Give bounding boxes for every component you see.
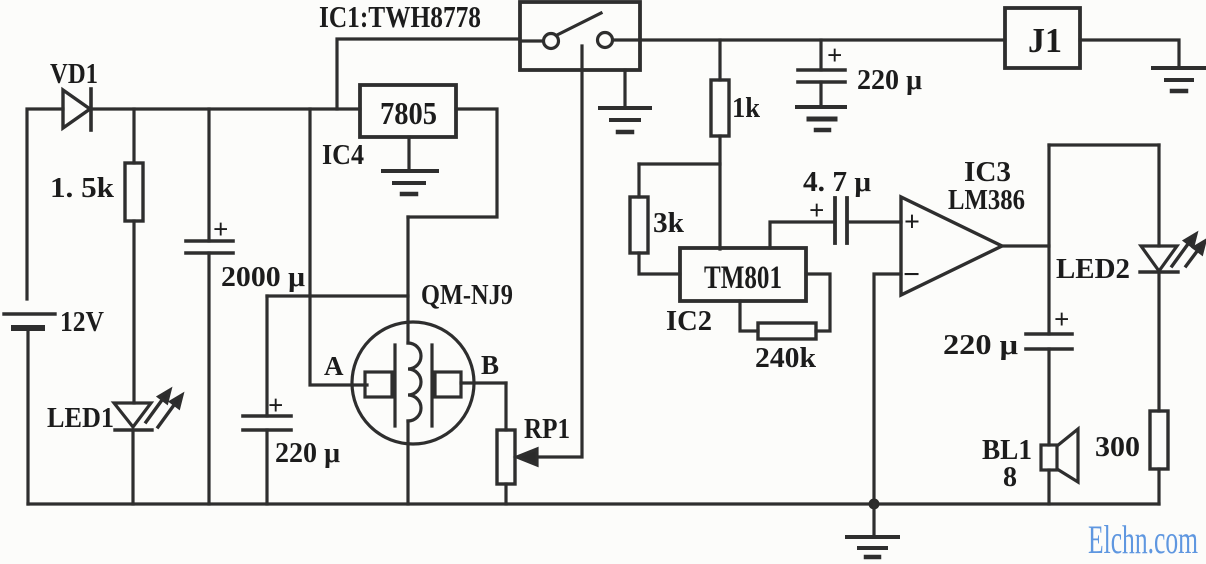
svg-text:300: 300 bbox=[1095, 432, 1140, 463]
wire TM801 to 4.7μ bbox=[770, 222, 835, 248]
svg-text:VD1: VD1 bbox=[50, 59, 98, 90]
svg-text:8: 8 bbox=[1003, 462, 1017, 493]
sensor QM-NJ9 bbox=[352, 322, 474, 504]
speaker BL1 bbox=[1041, 429, 1078, 504]
ground 220μ top bbox=[797, 107, 845, 130]
resistor 1k bbox=[711, 40, 729, 249]
svg-text:TM801: TM801 bbox=[704, 260, 782, 296]
svg-text:12V: 12V bbox=[60, 307, 104, 338]
svg-text:J1: J1 bbox=[1028, 21, 1062, 60]
svg-text:LED1: LED1 bbox=[47, 403, 114, 434]
diode VD1 bbox=[63, 89, 91, 130]
op-amp IC3 LM386 bbox=[901, 197, 1002, 295]
svg-text:+: + bbox=[268, 390, 283, 420]
wire 7805 output loop bbox=[408, 109, 497, 217]
capacitor 2000μ bbox=[186, 109, 233, 504]
LED LED1 bbox=[114, 390, 182, 504]
switch IC1 TWH8778 bbox=[520, 2, 640, 70]
ground J1 bbox=[1153, 68, 1205, 91]
wire op-amp output bbox=[1002, 244, 1049, 247]
svg-text:+: + bbox=[1054, 304, 1069, 334]
capacitor 4.7μ bbox=[835, 198, 847, 243]
wire 4.7μ to op-amp bbox=[847, 220, 901, 223]
svg-text:QM-NJ9: QM-NJ9 bbox=[421, 280, 513, 311]
junction node bbox=[869, 499, 880, 510]
wire 3k top to 1k line bbox=[639, 162, 720, 165]
wire rail to node A bbox=[310, 109, 367, 385]
regulator U-7805 IC4 bbox=[360, 85, 456, 137]
svg-text:220 μ: 220 μ bbox=[943, 330, 1018, 361]
capacitor 220μ top bbox=[798, 40, 845, 107]
wire node B to RP1 bbox=[461, 381, 506, 384]
svg-text:3k: 3k bbox=[653, 208, 684, 239]
wire bottom rail bbox=[28, 502, 1159, 505]
wire TWH8778 input riser bbox=[337, 39, 520, 109]
wire left rail bbox=[27, 109, 63, 299]
wire output node vertical bbox=[1047, 145, 1050, 334]
ground IC1 bbox=[600, 70, 650, 132]
svg-text:IC1:TWH8778: IC1:TWH8778 bbox=[319, 0, 481, 34]
svg-text:−: − bbox=[903, 258, 920, 291]
svg-text:IC2: IC2 bbox=[666, 306, 712, 337]
wire QM-NJ9 top feed bbox=[406, 217, 409, 343]
wire battery to bottom rail bbox=[26, 331, 29, 504]
svg-text:IC3: IC3 bbox=[964, 157, 1011, 188]
svg-text:RP1: RP1 bbox=[524, 414, 570, 445]
svg-text:2000 μ: 2000 μ bbox=[221, 262, 305, 293]
wire TM801 pin to 240k bbox=[740, 301, 758, 331]
svg-text:+: + bbox=[213, 214, 228, 244]
LED LED2 bbox=[1140, 234, 1205, 411]
wire J1 to ground bbox=[1080, 40, 1179, 68]
battery 12V bbox=[4, 314, 55, 328]
wire top link bbox=[1049, 143, 1159, 146]
potentiometer RP1 bbox=[497, 383, 515, 504]
svg-text:220 μ: 220 μ bbox=[857, 65, 922, 96]
wire 240k to TM801 output bbox=[806, 274, 830, 331]
wire LED2 branch bbox=[1157, 145, 1160, 246]
resistor 300 bbox=[1150, 411, 1168, 504]
svg-text:A: A bbox=[324, 351, 344, 381]
wire switch pin to RP1 wiper bbox=[536, 46, 582, 457]
wire top rail to 7805 bbox=[91, 107, 360, 110]
wire op-amp inverting input bbox=[874, 274, 901, 504]
svg-text:1. 5k: 1. 5k bbox=[50, 173, 114, 204]
resistor 3k bbox=[630, 164, 680, 274]
capacitor 220μ right bbox=[1026, 334, 1072, 445]
arrow RP1 wiper bbox=[517, 449, 537, 465]
svg-text:IC4: IC4 bbox=[322, 140, 364, 171]
capacitor 220μ bbox=[243, 296, 291, 504]
svg-text:+: + bbox=[809, 195, 824, 225]
resistor 1.5k bbox=[125, 109, 143, 403]
svg-text:+: + bbox=[904, 207, 920, 238]
ground main bbox=[847, 504, 898, 557]
resistor 240k bbox=[758, 323, 816, 339]
svg-text:240k: 240k bbox=[755, 343, 816, 374]
svg-text:4. 7 μ: 4. 7 μ bbox=[803, 167, 871, 198]
svg-text:+: + bbox=[827, 40, 842, 70]
svg-text:Elchn.com: Elchn.com bbox=[1088, 517, 1198, 562]
wire switch output rail bbox=[640, 38, 1005, 41]
svg-text:7805: 7805 bbox=[380, 95, 437, 131]
IC2 TM801 bbox=[680, 248, 806, 301]
ground IC4 bbox=[383, 137, 437, 194]
svg-text:LM386: LM386 bbox=[948, 185, 1025, 216]
svg-text:LED2: LED2 bbox=[1056, 254, 1130, 285]
svg-text:1k: 1k bbox=[732, 93, 760, 124]
wire 220μ to QM-NJ9 top node bbox=[267, 294, 408, 297]
relay J1 bbox=[1005, 8, 1080, 68]
svg-text:B: B bbox=[481, 350, 499, 380]
svg-text:220 μ: 220 μ bbox=[275, 438, 340, 469]
